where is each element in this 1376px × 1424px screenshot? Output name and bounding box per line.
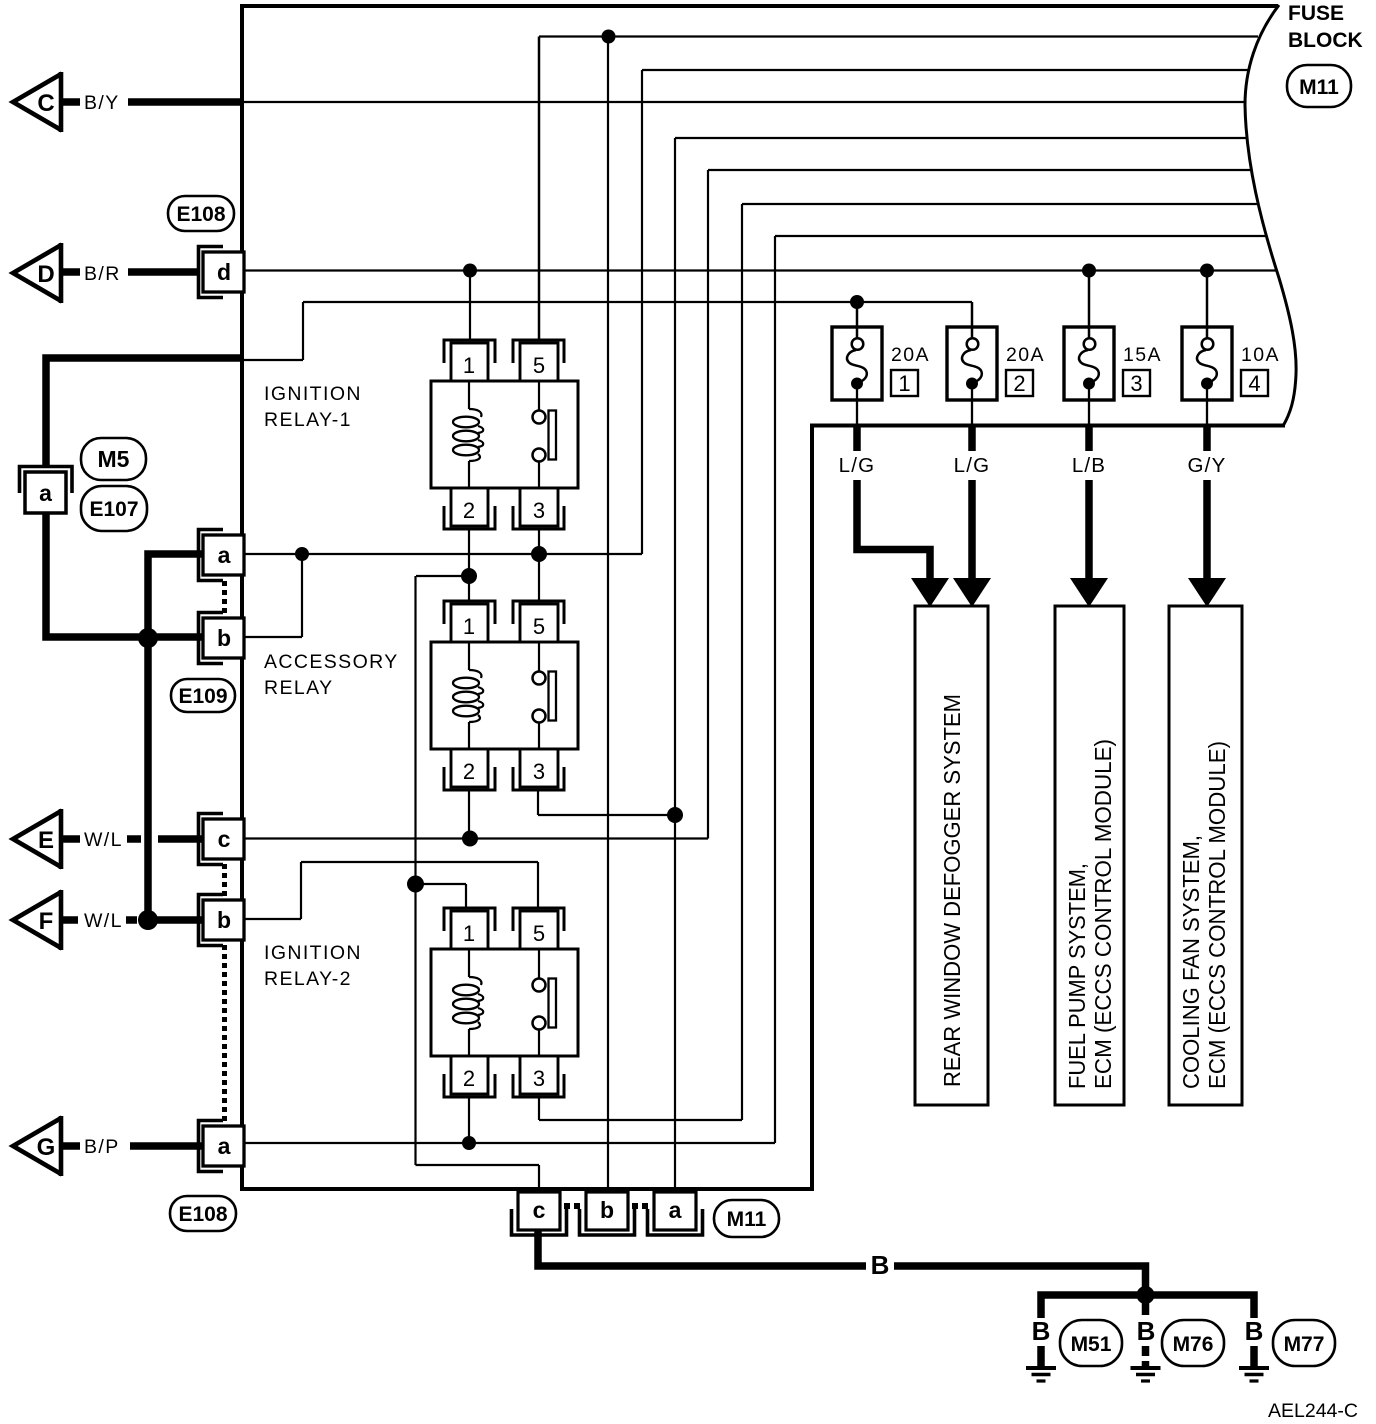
fuse 3 15A (1064, 327, 1114, 425)
svg-text:B/Y: B/Y (84, 92, 120, 114)
wire x775 drop to connector a lower (774, 236, 776, 1143)
connector E108 oval top (168, 196, 234, 231)
fuse 4 10A (1182, 327, 1232, 425)
fuse block inner bottom edge vertical (810, 425, 814, 1189)
fuse 4 input wire (1206, 270, 1209, 329)
dotted link bottom c to b (564, 1203, 570, 1209)
svg-text:1: 1 (898, 371, 910, 396)
svg-text:W/L: W/L (84, 829, 123, 851)
connector M11 oval top (1287, 65, 1351, 107)
wire W/L from E dashed (62, 835, 80, 843)
junction dot x539 y554 (531, 546, 547, 562)
fuse 2 20A (947, 327, 997, 425)
triangle connector G (13, 1116, 62, 1176)
svg-text:G: G (37, 1134, 56, 1161)
relay IGNITION RELAY-1 (431, 340, 578, 529)
ground branch wire middle dashed (1142, 1301, 1150, 1315)
dotted link b to a long (222, 945, 227, 1121)
triangle connector D (13, 243, 62, 303)
fuse 2 input wire (971, 302, 974, 329)
svg-text:10A: 10A (1241, 344, 1280, 366)
svg-text:M5: M5 (98, 446, 130, 472)
wire bus y204 (742, 203, 1258, 205)
wire y1143 connector a lower run (242, 1142, 775, 1144)
dotted link a to b (222, 581, 227, 586)
junction dot x469 y1143 (462, 1136, 476, 1150)
wire x415 long drop (414, 576, 416, 1165)
svg-text:L/G: L/G (954, 454, 991, 477)
svg-text:E108: E108 (176, 203, 225, 226)
arrow into defogger box from fuse 2 (953, 578, 991, 607)
thick wire down to F junction (144, 638, 152, 920)
junction dot x675 y815 (667, 807, 683, 823)
arrow into defogger box from fuse 1 (911, 578, 949, 607)
svg-text:M76: M76 (1173, 1333, 1214, 1356)
accessory pin3 drop wire (537, 790, 539, 815)
wire bus y102 B/Y feed (242, 101, 1245, 103)
bottom connector box c (512, 1192, 567, 1235)
wire B/P from G (62, 1142, 80, 1150)
connector box b lower (199, 895, 245, 946)
junction dot y36 x608 (602, 30, 616, 44)
ground branch wire right (1146, 1295, 1255, 1318)
fuse 4 output wire G/Y (1203, 425, 1211, 451)
svg-text:BLOCK: BLOCK (1288, 29, 1363, 52)
svg-text:a: a (218, 542, 231, 568)
svg-text:AEL244-C: AEL244-C (1268, 1400, 1358, 1422)
wire y884 relay2 pin1 feed (416, 883, 467, 885)
junction dot y302 x857 (850, 295, 864, 309)
svg-text:REAR WINDOW DEFOGGER SYSTEM: REAR WINDOW DEFOGGER SYSTEM (939, 694, 965, 1087)
relay1 pin3 to accessory pin5 wire (538, 529, 540, 601)
svg-text:RELAY-1: RELAY-1 (264, 409, 352, 431)
wire x539 to relay1 pin5 (538, 37, 541, 340)
svg-text:W/L: W/L (84, 910, 123, 932)
svg-text:20A: 20A (1006, 344, 1045, 366)
svg-text:B: B (1245, 1316, 1264, 1346)
dotted link bottom b to a (632, 1203, 638, 1209)
wire x708 drop to connector c (707, 170, 709, 839)
wire bus y236 (775, 235, 1266, 237)
fuse 1 input wire (856, 302, 859, 329)
ground M77 (1239, 1368, 1269, 1381)
ground branch wire left (1041, 1295, 1146, 1318)
fuse block bottom border (240, 1187, 814, 1191)
svg-text:B/R: B/R (84, 263, 121, 285)
wire bus y270 B/R feed (242, 269, 1277, 271)
svg-text:2: 2 (1013, 371, 1025, 396)
svg-text:c: c (533, 1197, 546, 1223)
svg-text:d: d (217, 259, 231, 285)
fuse block bus line bottom of fuse row (810, 424, 1285, 428)
fuse block torn right edge curve (1245, 5, 1296, 426)
svg-text:ACCESSORY: ACCESSORY (264, 651, 399, 673)
relay IGNITION RELAY-2 (431, 908, 578, 1097)
box COOLING FAN SYSTEM ECM (1169, 606, 1242, 1105)
oval E109 (171, 679, 235, 712)
wire bus y138 (675, 137, 1247, 139)
wire y815 accessory pin3 run (538, 814, 675, 816)
svg-text:a: a (218, 1133, 231, 1159)
svg-text:IGNITION: IGNITION (264, 942, 362, 964)
fuse 1 20A (832, 327, 882, 425)
svg-text:b: b (217, 625, 231, 651)
svg-text:M11: M11 (1299, 76, 1339, 99)
svg-text:B/P: B/P (84, 1136, 120, 1158)
connector box c (199, 814, 245, 865)
svg-text:a: a (39, 480, 52, 506)
wire x301 riser (300, 862, 302, 919)
svg-text:COOLING FAN SYSTEM,: COOLING FAN SYSTEM, (1178, 835, 1204, 1089)
svg-text:4: 4 (1248, 371, 1260, 396)
svg-text:a: a (669, 1197, 682, 1223)
wire x470 to relay1 pin1 (469, 271, 471, 340)
svg-text:E108: E108 (178, 1203, 227, 1226)
wire x608 to bottom connector b (607, 37, 609, 1192)
svg-text:M51: M51 (1071, 1333, 1112, 1356)
svg-text:ECM (ECCS CONTROL MODULE): ECM (ECCS CONTROL MODULE) (1204, 741, 1230, 1089)
svg-text:c: c (218, 826, 231, 852)
wire B/Y from C (62, 98, 80, 106)
arrow into fuel pump box from fuse 3 (1070, 578, 1108, 607)
relay ACCESSORY RELAY (431, 601, 578, 790)
svg-text:M11: M11 (727, 1208, 767, 1231)
fuse block top border (240, 4, 1278, 8)
wire x538 relay2 pin5 stub (537, 862, 539, 909)
wire x466 relay2 pin1 stub (465, 884, 467, 909)
relay2 pin3 drop wire (538, 1097, 540, 1120)
relay1 pin2 to accessory pin1 wire (468, 529, 470, 601)
svg-text:RELAY-2: RELAY-2 (264, 968, 352, 990)
connector box b middle (199, 613, 245, 664)
svg-text:20A: 20A (891, 344, 930, 366)
wire stub from border y360 (242, 359, 303, 361)
wire W/L from F dashed (62, 916, 78, 924)
svg-text:D: D (37, 261, 54, 288)
fuse 2 output wire L/G (968, 425, 976, 451)
bottom connector box b (580, 1192, 635, 1235)
svg-text:B: B (1137, 1316, 1156, 1346)
junction dot x469 y576 (461, 568, 477, 584)
wire x742 drop to relay2 pin3 (741, 204, 743, 1120)
svg-text:15A: 15A (1123, 344, 1162, 366)
oval E107 (81, 486, 147, 531)
wire bus y170 (708, 169, 1252, 171)
wire y862 relay2 pin5 feed (301, 861, 538, 863)
bottom connector box a (648, 1192, 703, 1235)
svg-text:RELAY: RELAY (264, 677, 334, 699)
ground junction dot (1137, 1286, 1155, 1304)
junction dot x470 y838 (462, 831, 478, 847)
svg-text:E109: E109 (178, 685, 227, 708)
wire y838 connector c run (242, 837, 708, 839)
svg-text:G/Y: G/Y (1188, 454, 1227, 477)
wire y637 to connector b (242, 636, 302, 638)
wire y1165 to bottom connector c (416, 1164, 540, 1166)
wire bus y302 battery feed to fuses 1 and 2 (303, 301, 972, 303)
ground M51 (1026, 1368, 1056, 1381)
box REAR WINDOW DEFOGGER SYSTEM (915, 606, 988, 1105)
svg-text:F: F (39, 908, 54, 935)
ground M76 (1131, 1368, 1161, 1381)
connector E108 oval bottom (170, 1196, 236, 1231)
wire x675 to bottom connector a (674, 138, 676, 1191)
connector box a M5 E107 (20, 467, 73, 494)
wire y576 jog (416, 575, 469, 577)
connector M11 oval bottom (714, 1200, 779, 1237)
dotted link c to b (222, 864, 227, 869)
oval M76 (1162, 1320, 1224, 1366)
wire bus y36 (539, 35, 1258, 37)
junction dot thick x148 y920 (138, 910, 158, 930)
svg-text:b: b (600, 1197, 614, 1223)
junction dot thick x148 y638 (138, 628, 158, 648)
junction dot x302 y554 (295, 547, 309, 561)
battery thick wire from connector a M5 up to fuse block (46, 358, 242, 468)
svg-text:B: B (1032, 1316, 1051, 1346)
accessory pin2 drop wire (468, 790, 470, 839)
triangle connector E (13, 809, 62, 869)
ground wire B from bottom connector c (538, 1231, 866, 1266)
svg-text:E: E (38, 827, 54, 854)
triangle connector C (13, 72, 62, 132)
svg-text:3: 3 (1130, 371, 1142, 396)
junction dot y270 x1089 (1082, 264, 1096, 278)
oval M77 (1273, 1320, 1335, 1366)
wire y919 stub from connector b lower (242, 918, 301, 920)
wire y1120 relay2 pin3 run (539, 1119, 742, 1121)
svg-text:C: C (37, 90, 54, 117)
svg-text:IGNITION: IGNITION (264, 383, 362, 405)
svg-text:L/G: L/G (839, 454, 876, 477)
wire x302 drop (301, 554, 303, 637)
thick wire from a M5 down to junction (46, 513, 204, 637)
wire bus y70 (642, 69, 1248, 71)
svg-text:E107: E107 (89, 498, 138, 521)
wire y554 connector a to relays (242, 553, 642, 555)
connector box a lower (199, 1121, 245, 1172)
svg-text:L/B: L/B (1072, 454, 1106, 477)
svg-text:B: B (871, 1250, 890, 1280)
connector box a middle (199, 530, 245, 581)
oval M5 (81, 438, 146, 480)
svg-text:FUEL PUMP SYSTEM,: FUEL PUMP SYSTEM, (1064, 863, 1090, 1089)
wire riser x303 (302, 302, 304, 360)
svg-text:M77: M77 (1284, 1333, 1325, 1356)
svg-text:FUSE: FUSE (1288, 2, 1344, 25)
relay2 pin2 drop wire (468, 1097, 470, 1143)
wire x642 drop (641, 70, 643, 554)
wire x539 into bottom connector c (538, 1165, 540, 1191)
box FUEL PUMP SYSTEM ECM (1055, 606, 1124, 1105)
triangle connector F (13, 890, 62, 950)
junction dot y270 x1207 (1200, 264, 1214, 278)
wire B/R from D (62, 268, 80, 276)
oval M51 (1060, 1320, 1122, 1366)
junction dot x415 y884 (407, 876, 424, 893)
thick wire branch up to connector a (148, 554, 204, 638)
fuse 1 output wire L/G (853, 425, 861, 451)
junction dot y270 x470 (463, 264, 477, 278)
fuse block left border (240, 4, 244, 1191)
svg-text:ECM (ECCS CONTROL MODULE): ECM (ECCS CONTROL MODULE) (1090, 739, 1116, 1089)
arrow into cooling fan box from fuse 4 (1188, 578, 1226, 607)
fuse 3 input wire (1088, 270, 1091, 329)
connector box d (199, 247, 245, 298)
svg-text:b: b (217, 907, 231, 933)
fuse 3 output wire L/B (1085, 425, 1093, 451)
